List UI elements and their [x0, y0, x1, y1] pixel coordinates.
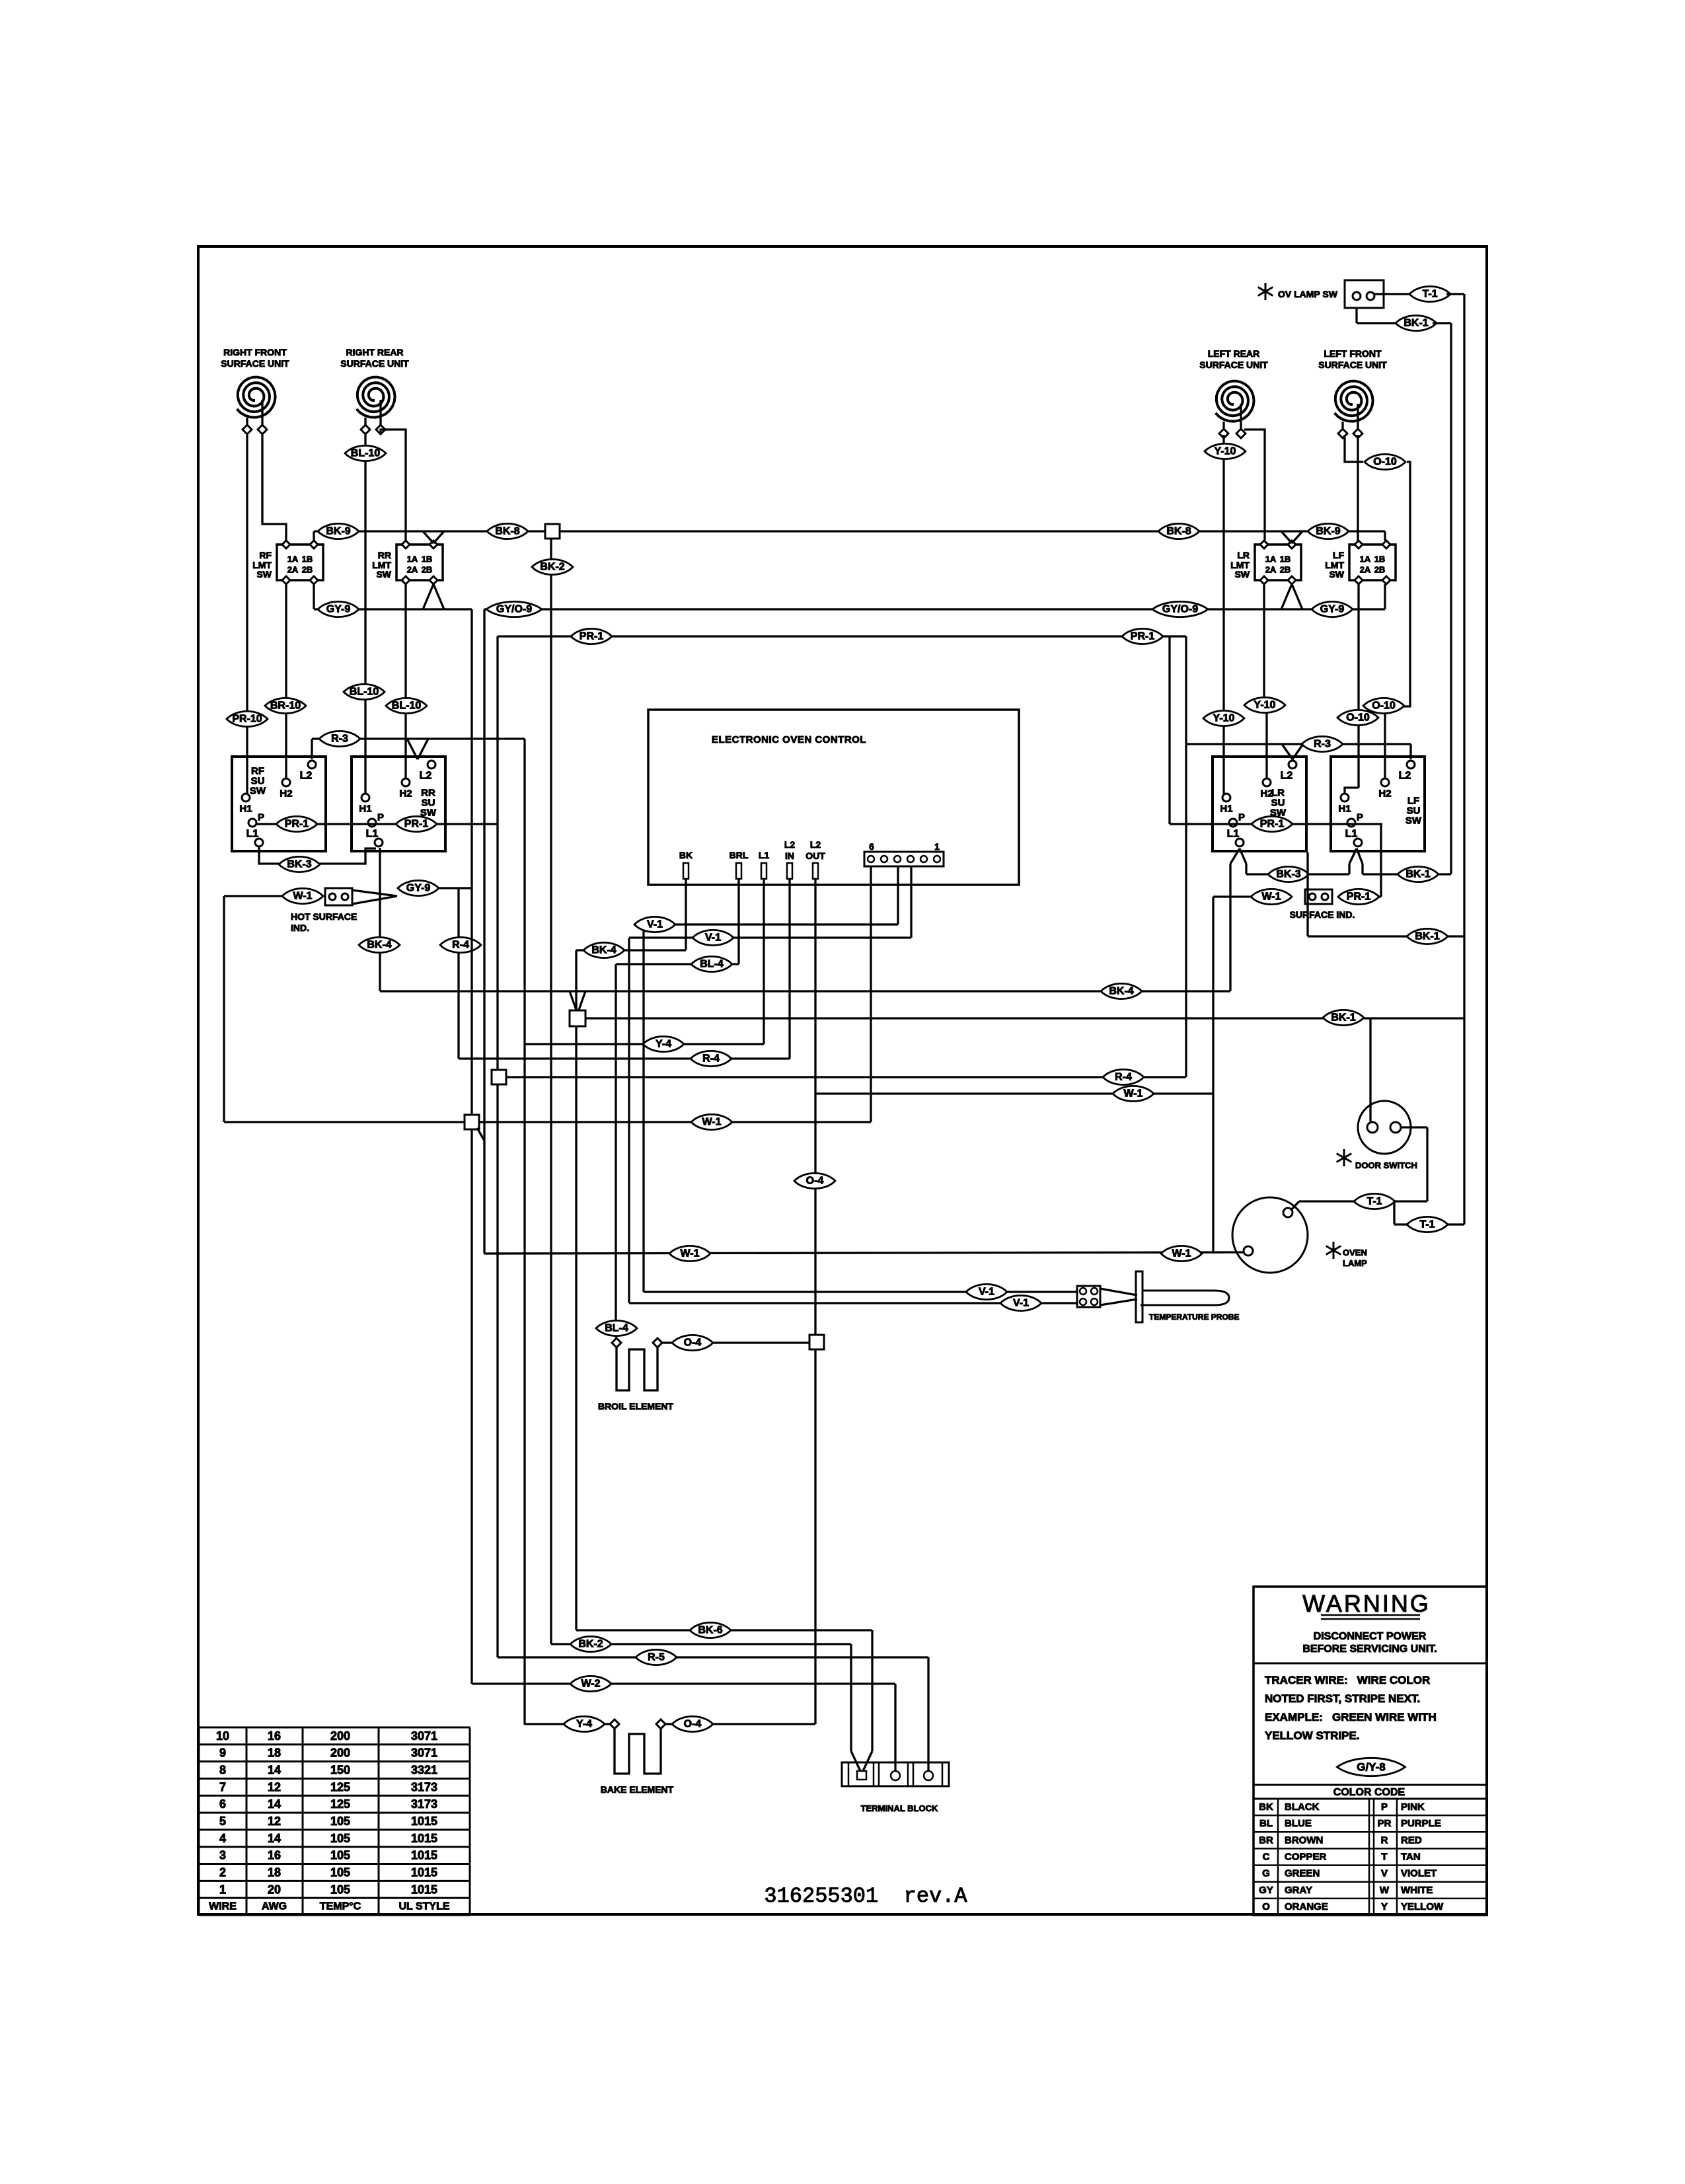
svg-text:PR-1: PR-1: [1347, 891, 1371, 903]
svg-text:BL-4: BL-4: [605, 1323, 628, 1334]
svg-text:EXAMPLE: GREEN WIRE WITH: EXAMPLE: GREEN WIRE WITH: [1265, 1711, 1437, 1723]
svg-text:H1: H1: [1220, 804, 1232, 815]
svg-text:BLACK: BLACK: [1285, 1801, 1320, 1813]
svg-text:V: V: [1381, 1868, 1388, 1879]
svg-text:WHITE: WHITE: [1401, 1885, 1433, 1896]
svg-text:LAMP: LAMP: [1343, 1258, 1367, 1268]
svg-text:L1: L1: [1227, 829, 1240, 840]
svg-text:BK: BK: [679, 850, 693, 860]
svg-text:3071: 3071: [411, 1729, 437, 1743]
svg-text:SW: SW: [1329, 569, 1344, 580]
svg-text:G: G: [1262, 1868, 1270, 1879]
svg-text:2A: 2A: [1265, 565, 1277, 575]
svg-text:GY-9: GY-9: [326, 604, 351, 615]
svg-text:18: 18: [268, 1747, 281, 1760]
svg-text:GRAY: GRAY: [1285, 1885, 1312, 1896]
svg-text:BROIL ELEMENT: BROIL ELEMENT: [598, 1401, 674, 1412]
svg-text:Y-4: Y-4: [655, 1039, 671, 1050]
svg-text:H2: H2: [280, 788, 292, 800]
svg-text:T-1: T-1: [1419, 1219, 1435, 1230]
svg-text:YELLOW STRIPE.: YELLOW STRIPE.: [1265, 1729, 1360, 1742]
svg-text:COLOR CODE: COLOR CODE: [1333, 1787, 1405, 1798]
svg-text:TAN: TAN: [1401, 1852, 1421, 1863]
svg-text:1A: 1A: [1265, 554, 1277, 564]
svg-text:BK: BK: [1259, 1801, 1273, 1813]
svg-text:L2: L2: [1399, 771, 1411, 782]
svg-text:R-3: R-3: [1314, 739, 1331, 750]
svg-text:1A: 1A: [407, 554, 418, 564]
svg-text:9: 9: [219, 1747, 226, 1760]
svg-text:C: C: [1263, 1852, 1270, 1863]
svg-text:GY-9: GY-9: [406, 883, 431, 894]
svg-text:O-10: O-10: [1372, 700, 1396, 712]
svg-text:3173: 3173: [411, 1780, 437, 1793]
svg-text:VIOLET: VIOLET: [1401, 1868, 1437, 1879]
svg-text:PURPLE: PURPLE: [1401, 1818, 1441, 1829]
svg-text:BK-4: BK-4: [367, 940, 391, 951]
svg-text:BRL: BRL: [730, 850, 749, 860]
svg-text:RF: RF: [259, 550, 272, 560]
svg-text:L1: L1: [246, 829, 259, 840]
svg-text:RED: RED: [1401, 1834, 1422, 1846]
svg-text:T-1: T-1: [1367, 1196, 1382, 1207]
svg-text:P: P: [377, 812, 384, 823]
svg-text:BK-1: BK-1: [1331, 1012, 1355, 1024]
svg-text:2B: 2B: [1374, 565, 1386, 575]
svg-text:W-1: W-1: [1123, 1088, 1142, 1100]
svg-text:4: 4: [219, 1832, 226, 1845]
svg-text:G/Y-8: G/Y-8: [1357, 1761, 1385, 1774]
svg-text:Y-10: Y-10: [1213, 713, 1235, 724]
svg-text:L2: L2: [784, 839, 796, 850]
svg-text:SW: SW: [1234, 569, 1250, 580]
svg-text:SW: SW: [250, 786, 266, 797]
svg-text:PR-1: PR-1: [1131, 631, 1155, 642]
svg-text:LF: LF: [1333, 550, 1345, 560]
svg-text:3: 3: [219, 1849, 226, 1862]
svg-text:RIGHT REAR: RIGHT REAR: [346, 347, 403, 358]
svg-text:PR-10: PR-10: [232, 714, 262, 725]
svg-text:PR-1: PR-1: [1260, 819, 1285, 830]
svg-text:SURFACE UNIT: SURFACE UNIT: [340, 358, 409, 369]
svg-text:WIRE: WIRE: [209, 1901, 237, 1912]
svg-text:1: 1: [219, 1883, 226, 1896]
svg-text:V-1: V-1: [705, 932, 721, 944]
svg-text:OVEN: OVEN: [1343, 1248, 1367, 1258]
svg-text:8: 8: [219, 1764, 226, 1777]
svg-text:6: 6: [869, 841, 874, 852]
svg-text:BK-2: BK-2: [578, 1639, 603, 1650]
svg-text:BK-3: BK-3: [1276, 869, 1300, 880]
svg-text:SURFACE UNIT: SURFACE UNIT: [221, 358, 289, 369]
svg-text:L2: L2: [300, 771, 313, 782]
svg-text:BROWN: BROWN: [1285, 1834, 1323, 1846]
svg-text:ORANGE: ORANGE: [1285, 1901, 1328, 1912]
svg-text:SW: SW: [376, 569, 391, 580]
svg-text:H1: H1: [359, 804, 371, 815]
svg-text:DOOR SWITCH: DOOR SWITCH: [1355, 1160, 1417, 1170]
svg-text:2A: 2A: [407, 565, 418, 575]
svg-text:V-1: V-1: [979, 1287, 994, 1298]
svg-text:R: R: [1381, 1834, 1388, 1846]
svg-text:5: 5: [219, 1815, 226, 1828]
svg-text:12: 12: [268, 1780, 281, 1793]
svg-text:YELLOW: YELLOW: [1401, 1901, 1444, 1912]
svg-text:1015: 1015: [411, 1832, 437, 1845]
svg-text:GY: GY: [1259, 1885, 1273, 1896]
svg-text:PINK: PINK: [1401, 1801, 1425, 1813]
svg-text:PR-1: PR-1: [285, 819, 309, 830]
svg-text:150: 150: [330, 1764, 350, 1777]
svg-text:LEFT FRONT: LEFT FRONT: [1324, 348, 1382, 359]
svg-text:7: 7: [219, 1780, 226, 1793]
svg-text:18: 18: [268, 1865, 281, 1879]
svg-text:R-4: R-4: [1115, 1072, 1132, 1083]
svg-text:BL-10: BL-10: [351, 448, 381, 459]
svg-text:BK-4: BK-4: [1109, 986, 1133, 997]
svg-text:O-10: O-10: [1346, 712, 1370, 724]
svg-text:O-4: O-4: [684, 1719, 702, 1730]
svg-text:BK-6: BK-6: [698, 1625, 722, 1636]
svg-text:1A: 1A: [1360, 554, 1371, 564]
svg-text:2B: 2B: [422, 565, 433, 575]
svg-text:BK-4: BK-4: [591, 945, 616, 956]
svg-text:125: 125: [330, 1797, 350, 1811]
svg-text:Y: Y: [1381, 1901, 1388, 1912]
svg-text:105: 105: [330, 1865, 350, 1879]
svg-text:3321: 3321: [411, 1764, 437, 1777]
svg-text:P: P: [258, 812, 264, 823]
svg-text:GY/O-9: GY/O-9: [1162, 604, 1198, 615]
svg-text:BK-9: BK-9: [1316, 526, 1340, 537]
svg-text:Y-4: Y-4: [576, 1719, 592, 1730]
svg-text:L1: L1: [366, 829, 379, 840]
svg-text:1B: 1B: [1280, 554, 1291, 564]
svg-text:316255301 rev.A: 316255301 rev.A: [764, 1884, 967, 1908]
svg-text:W-1: W-1: [680, 1248, 699, 1260]
svg-text:P: P: [1381, 1801, 1388, 1813]
svg-text:HOT SURFACE: HOT SURFACE: [291, 911, 357, 922]
svg-text:125: 125: [330, 1780, 350, 1793]
svg-text:1B: 1B: [422, 554, 433, 564]
svg-text:W-2: W-2: [581, 1678, 600, 1690]
svg-text:200: 200: [330, 1747, 350, 1760]
svg-text:1015: 1015: [411, 1849, 437, 1862]
svg-text:H2: H2: [1378, 788, 1391, 800]
svg-text:14: 14: [268, 1797, 281, 1811]
svg-text:14: 14: [268, 1832, 281, 1845]
svg-text:BLUE: BLUE: [1285, 1818, 1312, 1829]
svg-text:W: W: [1380, 1885, 1390, 1896]
svg-text:BL-10: BL-10: [392, 700, 422, 712]
svg-text:105: 105: [330, 1815, 350, 1828]
svg-text:1A: 1A: [287, 554, 299, 564]
svg-text:BR: BR: [1259, 1834, 1273, 1846]
svg-text:10: 10: [216, 1729, 229, 1743]
svg-text:1015: 1015: [411, 1865, 437, 1879]
svg-text:BK-1: BK-1: [1415, 931, 1439, 942]
svg-text:H2: H2: [399, 788, 412, 800]
svg-text:BK-9: BK-9: [326, 526, 350, 537]
svg-text:P: P: [1357, 812, 1363, 823]
svg-text:W-1: W-1: [1172, 1248, 1191, 1260]
svg-text:BK-1: BK-1: [1405, 869, 1430, 880]
svg-text:R-4: R-4: [452, 940, 469, 951]
svg-text:16: 16: [268, 1729, 281, 1743]
svg-text:105: 105: [330, 1883, 350, 1896]
svg-text:20: 20: [268, 1883, 281, 1896]
svg-text:2: 2: [219, 1865, 226, 1879]
svg-text:O-10: O-10: [1373, 457, 1397, 468]
svg-text:W-1: W-1: [702, 1117, 721, 1128]
svg-text:R-4: R-4: [702, 1053, 720, 1065]
svg-text:BK-3: BK-3: [287, 859, 311, 870]
svg-text:OUT: OUT: [805, 850, 825, 861]
svg-text:UL STYLE: UL STYLE: [398, 1901, 449, 1912]
svg-text:BK-8: BK-8: [495, 526, 519, 537]
svg-text:R-3: R-3: [331, 734, 348, 745]
svg-text:ELECTRONIC OVEN CONTROL: ELECTRONIC OVEN CONTROL: [712, 734, 866, 745]
svg-text:H1: H1: [1338, 804, 1351, 815]
svg-text:GY/O-9: GY/O-9: [496, 604, 532, 615]
svg-text:PR-1: PR-1: [580, 631, 604, 642]
svg-text:T: T: [1381, 1852, 1387, 1863]
svg-text:LR: LR: [1237, 550, 1250, 560]
svg-text:BL: BL: [1259, 1818, 1273, 1829]
svg-text:12: 12: [268, 1815, 281, 1828]
svg-text:IN: IN: [785, 850, 794, 861]
svg-text:OV LAMP SW: OV LAMP SW: [1278, 289, 1338, 299]
svg-text:L1: L1: [1345, 829, 1358, 840]
svg-text:1B: 1B: [1374, 554, 1386, 564]
svg-text:2B: 2B: [302, 565, 313, 575]
svg-text:SW: SW: [256, 569, 272, 580]
svg-text:RR: RR: [378, 550, 391, 560]
svg-text:SURFACE UNIT: SURFACE UNIT: [1318, 359, 1387, 370]
svg-text:NOTED FIRST, STRIPE NEXT.: NOTED FIRST, STRIPE NEXT.: [1265, 1692, 1420, 1705]
svg-text:H1: H1: [239, 804, 252, 815]
svg-text:L1: L1: [759, 850, 770, 860]
svg-text:SW: SW: [1405, 815, 1422, 827]
svg-text:14: 14: [268, 1764, 281, 1777]
svg-text:O: O: [1262, 1901, 1270, 1912]
svg-text:TEMP°C: TEMP°C: [320, 1901, 361, 1912]
svg-text:BAKE ELEMENT: BAKE ELEMENT: [601, 1784, 674, 1795]
svg-text:LEFT REAR: LEFT REAR: [1208, 348, 1260, 359]
svg-text:Y-10: Y-10: [1254, 700, 1276, 711]
svg-text:BL-10: BL-10: [350, 687, 379, 698]
svg-text:2B: 2B: [1280, 565, 1291, 575]
svg-text:1015: 1015: [411, 1815, 437, 1828]
svg-text:PR: PR: [1378, 1818, 1392, 1829]
svg-text:BK-1: BK-1: [1404, 318, 1428, 329]
svg-text:GY-9: GY-9: [1320, 604, 1345, 615]
svg-text:R-5: R-5: [648, 1652, 665, 1663]
svg-text:SURFACE IND.: SURFACE IND.: [1290, 909, 1355, 920]
svg-text:Y-10: Y-10: [1215, 446, 1236, 457]
svg-text:L2: L2: [1281, 771, 1293, 782]
svg-text:6: 6: [219, 1797, 226, 1811]
svg-text:AWG: AWG: [262, 1901, 287, 1912]
svg-text:V-1: V-1: [1013, 1298, 1029, 1309]
svg-text:GREEN: GREEN: [1285, 1868, 1320, 1879]
svg-text:1B: 1B: [302, 554, 313, 564]
svg-text:O-4: O-4: [806, 1176, 824, 1187]
svg-text:BK-2: BK-2: [540, 562, 564, 573]
svg-text:1: 1: [934, 841, 940, 852]
svg-text:RIGHT FRONT: RIGHT FRONT: [223, 347, 287, 358]
svg-text:BK-8: BK-8: [1166, 526, 1191, 537]
svg-text:200: 200: [330, 1729, 350, 1743]
svg-text:2A: 2A: [287, 565, 299, 575]
svg-text:L2: L2: [810, 839, 821, 850]
svg-text:3071: 3071: [411, 1747, 437, 1760]
svg-text:1015: 1015: [411, 1883, 437, 1896]
svg-text:W-1: W-1: [1261, 891, 1281, 903]
svg-text:O-4: O-4: [684, 1337, 702, 1349]
svg-text:V-1: V-1: [647, 919, 663, 930]
svg-text:IND.: IND.: [291, 923, 309, 933]
svg-text:COPPER: COPPER: [1285, 1852, 1327, 1863]
svg-text:SURFACE UNIT: SURFACE UNIT: [1199, 359, 1268, 370]
svg-text:T-1: T-1: [1422, 289, 1437, 300]
svg-text:3173: 3173: [411, 1797, 437, 1811]
svg-text:16: 16: [268, 1849, 281, 1862]
svg-text:DISCONNECT POWER: DISCONNECT POWER: [1314, 1631, 1427, 1642]
svg-text:TERMINAL BLOCK: TERMINAL BLOCK: [861, 1803, 938, 1813]
svg-text:105: 105: [330, 1849, 350, 1862]
svg-text:W-1: W-1: [293, 891, 312, 902]
svg-text:BR-10: BR-10: [270, 700, 301, 712]
svg-text:BL-4: BL-4: [700, 959, 724, 970]
svg-text:TRACER WIRE: WIRE COLOR: TRACER WIRE: WIRE COLOR: [1265, 1674, 1430, 1686]
svg-text:2A: 2A: [1360, 565, 1371, 575]
svg-text:L2: L2: [420, 771, 432, 782]
svg-text:105: 105: [330, 1832, 350, 1845]
svg-text:TEMPERATURE PROBE: TEMPERATURE PROBE: [1149, 1312, 1239, 1322]
svg-text:PR-1: PR-1: [404, 819, 429, 830]
svg-text:WARNING: WARNING: [1302, 1590, 1431, 1617]
svg-text:P: P: [1238, 812, 1245, 823]
svg-text:BEFORE SERVICING UNIT.: BEFORE SERVICING UNIT.: [1302, 1643, 1437, 1655]
